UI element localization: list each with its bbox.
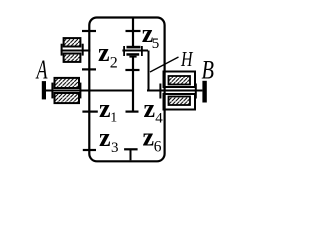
bearing B inner lower hatched block	[169, 97, 191, 106]
leader line to H	[150, 57, 179, 72]
svg-text:z: z	[144, 94, 156, 123]
bearing B outer upper box	[164, 72, 196, 88]
bearing A lower hatched block	[55, 93, 80, 103]
gear z1 cap	[82, 110, 97, 112]
shaft A end bar	[42, 81, 46, 99]
shaft B end bar	[202, 81, 206, 103]
svg-text:B: B	[202, 56, 215, 85]
shaft A	[46, 90, 135, 92]
carrier housing H (rounded box)	[89, 18, 164, 162]
bearing B outer lower box	[164, 94, 196, 110]
bearing A left tick	[51, 83, 53, 99]
svg-text:z: z	[99, 123, 111, 152]
svg-text:z: z	[143, 123, 155, 152]
gear z4 cap	[126, 110, 139, 112]
svg-text:3: 3	[111, 140, 119, 156]
svg-text:z: z	[99, 94, 111, 123]
intermediate bearing right tick	[82, 44, 84, 56]
bearing B right tick	[195, 84, 197, 99]
svg-text:5: 5	[152, 36, 160, 52]
gear z5 bottom cap	[125, 69, 139, 71]
gear z3 cap	[83, 149, 96, 151]
intermediate shaft right segment	[122, 50, 148, 52]
gear z2 bottom cap	[82, 68, 96, 70]
gear z5 top cap	[126, 30, 141, 32]
shaft B hub tick	[159, 84, 161, 99]
satellite bearing upper bar	[127, 46, 141, 49]
satellite bearing lower bar	[126, 53, 139, 56]
shaft B	[147, 90, 202, 92]
satellite bearing right tick	[141, 46, 143, 56]
intermediate bearing lower hatched block	[64, 54, 81, 62]
bearing A upper hatched block	[55, 78, 80, 88]
gear z2 top cap	[82, 30, 96, 32]
gear z6 cap	[124, 148, 138, 150]
gear line z5/z4 upper stem	[132, 18, 134, 47]
intermediate shaft left segment	[61, 50, 91, 52]
svg-text:H: H	[180, 47, 194, 71]
intermediate bearing upper hatched block	[64, 38, 81, 46]
gear line z5/z4 lower stem	[132, 57, 134, 112]
svg-text:A: A	[35, 55, 48, 85]
gear z6 stem	[130, 149, 132, 160]
carrier arm H (vertical link from intermediate shaft to shaft B)	[148, 51, 150, 91]
svg-text:6: 6	[154, 139, 162, 156]
bearing A right tick	[79, 83, 81, 99]
satellite bearing left tick	[123, 46, 125, 56]
svg-text:z: z	[98, 38, 110, 67]
satellite bearing lower small cap	[129, 56, 136, 58]
intermediate bearing left tick	[61, 44, 63, 56]
svg-text:1: 1	[110, 111, 117, 126]
svg-text:2: 2	[110, 55, 118, 72]
svg-text:4: 4	[155, 111, 163, 127]
bearing B inner upper hatched block	[169, 76, 191, 85]
